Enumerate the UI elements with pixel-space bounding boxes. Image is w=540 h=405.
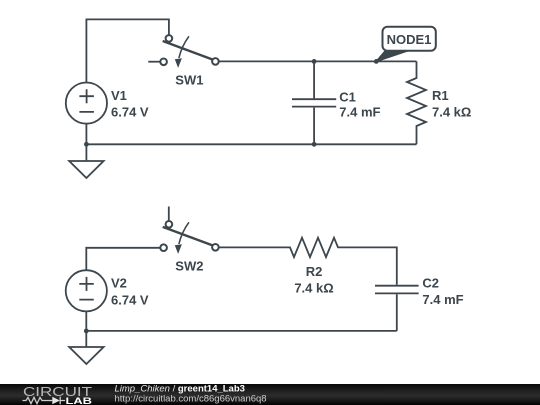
svg-text:http://circuitlab.com/c86g66vn: http://circuitlab.com/c86g66vnan6q8: [115, 393, 267, 404]
svg-text:V2: V2: [111, 276, 127, 291]
svg-text:NODE1: NODE1: [387, 32, 432, 47]
svg-text:SW1: SW1: [175, 72, 203, 87]
svg-text:C1: C1: [339, 89, 356, 104]
svg-text:6.74 V: 6.74 V: [111, 105, 149, 120]
svg-text:7.4 mF: 7.4 mF: [422, 292, 463, 307]
svg-text:SW2: SW2: [175, 259, 203, 274]
svg-text:7.4 mF: 7.4 mF: [339, 105, 380, 120]
svg-text:V1: V1: [111, 88, 127, 103]
svg-text:C2: C2: [422, 276, 439, 291]
svg-text:R1: R1: [432, 88, 449, 103]
svg-text:R2: R2: [306, 264, 323, 279]
svg-text:7.4 kΩ: 7.4 kΩ: [432, 105, 471, 120]
svg-text:7.4 kΩ: 7.4 kΩ: [294, 280, 333, 295]
svg-text:6.74 V: 6.74 V: [111, 292, 149, 307]
svg-text:LAB: LAB: [66, 396, 93, 405]
